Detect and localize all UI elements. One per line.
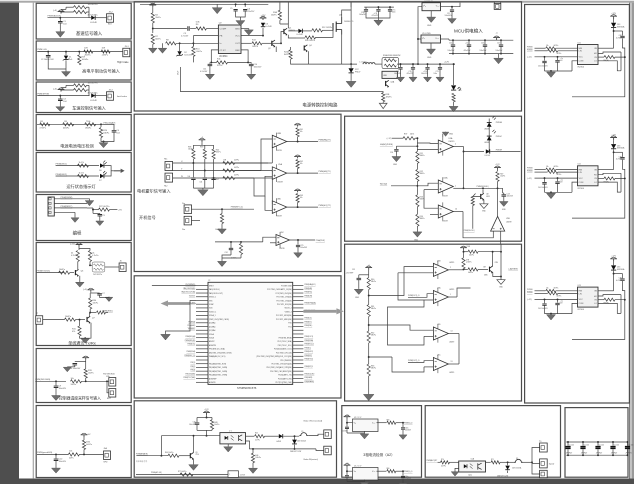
blockB1 comparator U5B	[438, 180, 453, 193]
svg-text:30k/Pa: 30k/Pa	[155, 38, 161, 40]
svg-text:GND: GND	[427, 57, 432, 59]
blockB1 output bus vertical	[463, 152, 465, 189]
svg-text:HIN: HIN	[579, 169, 583, 171]
power resistor R11	[217, 61, 228, 64]
mcu left pin 12	[196, 326, 208, 328]
svg-text:LM239: LM239	[449, 289, 454, 291]
power bank cap 2	[468, 40, 470, 44]
svg-text:+82kPa: +82kPa	[84, 54, 91, 56]
current rowA input wire	[347, 419, 353, 423]
brake connector brake-in	[316, 449, 324, 451]
svg-text:LL4148: LL4148	[90, 100, 98, 102]
blockB2 right emitter wire	[493, 272, 501, 276]
box7 circuit2 input wire	[43, 319, 65, 321]
box6 ground 1	[74, 212, 76, 217]
svg-text:10R: 10R	[102, 48, 106, 50]
box2 capacitor C2	[47, 52, 49, 55]
svg-text:4.7u/16V: 4.7u/16V	[200, 71, 208, 73]
box1 resistor right joins	[87, 6, 90, 8]
top edge band	[0, 0, 634, 1]
opto junction to connectors	[531, 461, 533, 463]
svg-text:PWM(SP): PWM(SP)	[304, 355, 312, 357]
svg-text:U21: U21	[578, 42, 581, 44]
power cap row ground	[366, 11, 390, 18]
blockB1 U5D input left	[453, 211, 463, 213]
svg-text:LM239: LM239	[449, 262, 454, 264]
svg-text:STM8S005C6T6: STM8S005C6T6	[237, 386, 257, 390]
svg-text:100n/50V: 100n/50V	[445, 15, 453, 17]
mcu left pin 18	[196, 348, 208, 350]
brake diode D9	[279, 434, 283, 438]
svg-text:U9C: U9C	[280, 232, 284, 234]
svg-text:(76)/Pa: (76)/Pa	[85, 128, 92, 130]
svg-text:10k/Pa: 10k/Pa	[71, 384, 77, 386]
svg-text:100n/50V: 100n/50V	[496, 50, 504, 52]
svg-text:10k 4k7/Pa: 10k 4k7/Pa	[88, 4, 99, 6]
svg-text:6.8k: 6.8k	[196, 22, 200, 24]
svg-text:56k/Pa: 56k/Pa	[271, 14, 277, 16]
box3 resistor upper	[74, 84, 87, 87]
box8 connector JB	[109, 389, 116, 398]
power sense resistor pair	[382, 57, 399, 68]
mcu vss ground	[166, 300, 197, 334]
box6 capacitor C5	[92, 210, 94, 214]
brake fuse F1	[299, 433, 308, 436]
svg-text:10k: 10k	[546, 287, 549, 289]
power rail drop to Q1	[287, 2, 289, 24]
power Q1 Q2 base tie	[270, 42, 272, 44]
current rowA gnd	[364, 431, 366, 434]
driver3 HO out wire	[620, 295, 622, 314]
capbank cap 2	[582, 442, 584, 446]
svg-text:车速控制信号输入: 车速控制信号输入	[72, 105, 106, 112]
svg-text:100n: 100n	[405, 476, 409, 478]
box3 resistor lower	[74, 88, 87, 91]
svg-text:GND: GND	[427, 25, 432, 27]
svg-text:10k/Pa: 10k/Pa	[216, 152, 221, 154]
power transistor Q4	[303, 45, 305, 50]
svg-text:PWGB: PWGB	[527, 46, 533, 48]
blockB2 right hollow ground	[500, 277, 502, 280]
power U4 output wire	[441, 3, 461, 7]
power cap C7C	[389, 7, 391, 9]
blockB2 right junction	[463, 250, 465, 252]
svg-text:R38: R38	[188, 147, 191, 149]
svg-text:14: 14	[455, 209, 457, 211]
svg-text:3相电流检测（A2）: 3相电流检测（A2）	[363, 452, 395, 457]
svg-text:68k/Pa: 68k/Pa	[420, 155, 425, 157]
svg-text:PWM(speed/GN): PWM(speed/GN)	[37, 452, 53, 454]
power emitter junction wires	[288, 35, 296, 38]
hall U8A output	[287, 141, 318, 143]
box4 resistor R23	[85, 123, 96, 126]
svg-text:C0 104: C0 104	[569, 444, 574, 446]
opto fuse F2	[514, 459, 523, 462]
blockB1 comparator U5D upward	[491, 216, 505, 231]
svg-text:C19: C19	[409, 71, 412, 73]
blockB1 SD/OK long wire	[472, 206, 474, 229]
svg-text:C13: C13	[507, 193, 510, 195]
svg-text:10k: 10k	[69, 451, 72, 453]
svg-text:PWM(NRST): PWM(NRST)	[61, 206, 73, 208]
box3 wires to resistors	[61, 90, 74, 92]
svg-text:100n: 100n	[392, 12, 396, 14]
capbank bottom rail	[566, 454, 628, 456]
svg-text:C40 100n/50V: C40 100n/50V	[538, 187, 548, 189]
svg-text:PWGB: PWGB	[527, 49, 533, 51]
svg-text:PG0: PG0	[288, 323, 291, 325]
svg-text:LIN: LIN	[579, 172, 583, 174]
svg-text:PG1: PG1	[288, 326, 291, 328]
svg-text:22: 22	[208, 280, 210, 282]
current rowB output wire	[377, 470, 387, 472]
svg-text:2: 2	[450, 267, 451, 269]
svg-text:C18: C18	[396, 71, 399, 73]
svg-text:+5V REF: +5V REF	[346, 272, 355, 274]
blockB2 right top wire	[478, 251, 501, 253]
svg-text:(+12): (+12)	[527, 57, 532, 59]
svg-text:R27 4k7/Pa: R27 4k7/Pa	[99, 206, 110, 208]
box7 rail split	[78, 247, 80, 249]
mcu right pin 2	[293, 288, 304, 290]
svg-text:开机信号: 开机信号	[139, 214, 156, 221]
svg-text:编程: 编程	[73, 230, 82, 237]
svg-text:100n/16V: 100n/16V	[189, 424, 195, 426]
svg-text:68k/Pa: 68k/Pa	[371, 281, 376, 283]
svg-text:PD7(TLI)(TIM1_CH4): PD7(TLI)(TIM1_CH4)	[276, 382, 293, 384]
current rowA output wire	[377, 422, 387, 424]
blockB1 U5D input right	[500, 231, 502, 244]
svg-text:LL4148: LL4148	[297, 34, 303, 36]
brake transistor Q9	[189, 453, 191, 458]
power-on resistor ground	[221, 224, 223, 229]
svg-text:PWM/NC: PWM/NC	[188, 329, 196, 331]
opto zener D12	[507, 462, 509, 465]
svg-text:U5A: U5A	[278, 163, 283, 166]
hall U8C pullup	[294, 191, 301, 193]
svg-text:COM: COM	[579, 182, 584, 184]
box3 resistor joins	[87, 84, 90, 86]
svg-text:4k7/Pa: 4k7/Pa	[255, 439, 260, 441]
box2 ground	[65, 70, 67, 73]
svg-text:HIN: HIN	[579, 291, 583, 293]
mcu top-left net wire	[152, 285, 196, 287]
blockB1 divider bottom ground	[416, 226, 418, 231]
box8 capacitor C8	[85, 360, 87, 362]
svg-text:1: 1	[450, 294, 451, 296]
blockB2 right collector wire	[492, 252, 494, 267]
blockB2 comparator U11D	[433, 358, 448, 371]
blockB2 input wires op1	[369, 267, 434, 296]
driver1 IC IR2304	[578, 45, 599, 65]
svg-text:PD6 TIM2_CH1 (BK6/P)(D6): PD6 TIM2_CH1 (BK6/P)(D6)	[270, 371, 292, 373]
blockB2 ref rail	[359, 274, 369, 276]
svg-text:R3C 10R/Pa: R3C 10R/Pa	[322, 27, 332, 29]
box7 output junction	[89, 262, 91, 266]
blockA lower comparator input wires	[263, 237, 276, 242]
blockB2 divider R60	[368, 275, 370, 278]
driver3 VB wire	[613, 271, 615, 291]
svg-text:PWM(V)_D: PWM(V)_D	[404, 423, 413, 425]
box4 resistor R24 vertical	[100, 124, 102, 127]
box8 capacitor C9	[55, 381, 57, 385]
left column box 9 frame	[36, 406, 131, 478]
blockB2 ref power	[365, 268, 372, 270]
mcu left pin 21	[196, 359, 208, 361]
svg-text:(+12): (+12)	[70, 243, 75, 245]
power Q3 source wire	[341, 35, 343, 65]
svg-text:R41: R41	[300, 129, 303, 131]
box3 capacitor	[59, 96, 61, 99]
power R24A resistor	[290, 47, 292, 50]
bottom shadow bar	[0, 479, 634, 485]
power IC U2 PWM controller	[218, 25, 241, 54]
brake resistor R48	[210, 420, 213, 430]
driver1 bootstrap cap C48	[614, 30, 623, 32]
svg-text:4k7/Pa: 4k7/Pa	[554, 166, 559, 168]
blockB2 right vertical out wire	[500, 244, 502, 276]
svg-text:47u/25V: 47u/25V	[248, 11, 255, 13]
brake Q9 collector	[193, 436, 195, 453]
box4 capacitor C4	[113, 124, 115, 130]
blockB2 feedback loop	[388, 300, 425, 345]
brake base resistor R44	[137, 455, 169, 457]
svg-text:50V: 50V	[560, 303, 563, 305]
mcu right pin 16	[293, 340, 304, 342]
power gate node wire	[322, 29, 333, 31]
blockB1 SD wire	[464, 187, 503, 189]
svg-text:C48: C48	[619, 278, 622, 280]
svg-text:PWM(UH): PWM(UH)	[304, 295, 312, 297]
driver3 HIN wire	[535, 290, 546, 292]
driver3 IC IR2304	[578, 287, 599, 307]
driver2 cap C40	[544, 178, 546, 182]
svg-text:10k/Pa: 10k/Pa	[88, 372, 94, 374]
svg-text:运行状态指示灯: 运行状态指示灯	[66, 183, 96, 190]
svg-text:4u7/50V: 4u7/50V	[616, 37, 622, 39]
power +12V above D3	[260, 18, 267, 20]
box7 circuit2 output resistor	[89, 312, 91, 314]
driver2 +12V symbol	[610, 138, 617, 141]
box9 +5V power	[81, 435, 88, 437]
svg-text:LM239: LM239	[449, 372, 454, 374]
svg-text:100n/16V: 100n/16V	[300, 247, 308, 249]
blockA lower output cap	[297, 240, 299, 245]
box8 connector link wire	[107, 380, 109, 382]
svg-text:10k/Pa: 10k/Pa	[65, 316, 72, 318]
svg-text:R39: R39	[200, 147, 203, 149]
mcu right pin 21	[293, 359, 304, 361]
blockB1 comparator U5A	[438, 140, 453, 153]
svg-text:47k: 47k	[72, 331, 75, 333]
mcu right pin 19	[293, 352, 304, 354]
svg-text:+ 1u: + 1u	[560, 179, 563, 181]
svg-text:C0 104: C0 104	[614, 444, 619, 446]
hall cap bottom rail	[192, 180, 194, 188]
svg-text:IR2304: IR2304	[578, 309, 585, 311]
blockB1 input cap	[395, 146, 397, 149]
power OUT wire and R13	[241, 42, 252, 44]
mcu right bus arrow	[303, 310, 336, 313]
mcu right pin 20	[293, 355, 304, 357]
svg-text:PWM(OC2)_D: PWM(OC2)_D	[408, 360, 420, 362]
box1 ground	[59, 23, 61, 31]
driver1 HO wire	[598, 52, 621, 53]
svg-text:PA1(OSCIN)(D): PA1(OSCIN)(D)	[183, 287, 195, 290]
svg-text:High brake: High brake	[117, 61, 129, 64]
svg-text:C40 100n/50V: C40 100n/50V	[538, 308, 548, 310]
driver3 LO wire	[598, 303, 621, 313]
mcu right pin 17	[293, 344, 304, 346]
svg-text:100n/50V: 100n/50V	[480, 50, 488, 52]
svg-text:COM: COM	[579, 303, 584, 305]
svg-text:CT:ST: CT:ST	[220, 50, 227, 52]
blockB1 LED PWGC	[487, 136, 492, 140]
power bank cap 3	[484, 40, 486, 44]
blockB1 comparator input wires	[417, 142, 438, 144]
power resistor R7	[152, 29, 154, 34]
svg-text:PE5(TIM1_BKIN): PE5(TIM1_BKIN)	[279, 337, 292, 339]
power cap bank rails	[449, 39, 513, 41]
box3 main wire	[37, 95, 89, 97]
svg-text:+Pb(Pb)V: +Pb(Pb)V	[581, 452, 588, 454]
svg-text:PWGB: PWGB	[527, 168, 533, 170]
svg-text:20N06L/TO: 20N06L/TO	[344, 21, 354, 23]
svg-text:LL4148: LL4148	[276, 441, 281, 443]
svg-text:LED0B: LED0B	[484, 129, 489, 131]
svg-text:PWM(SCL)2: PWM(SCL)2	[304, 344, 314, 346]
power feedback wire long	[180, 67, 380, 92]
svg-text:100n/50V: 100n/50V	[448, 50, 456, 52]
svg-text:PMA(A)N4 (DC_SCL): PMA(A)N4 (DC_SCL)	[209, 355, 226, 358]
svg-text:PWM(HA)(HY): PWM(HA)(HY)	[304, 283, 315, 286]
power transistor Q5A	[385, 81, 387, 86]
svg-text:LED0B: LED0B	[484, 142, 489, 144]
blockB2 ref cap ground	[358, 280, 360, 289]
svg-text:PCV(TIM1_CH2)(D6): PCV(TIM1_CH2)(D6)	[276, 293, 292, 295]
driver1 VB wire	[613, 28, 615, 48]
svg-text:C0 104: C0 104	[584, 444, 589, 446]
svg-text:PWM(HC2): PWM(HC2)	[304, 351, 313, 353]
svg-text:AGN/PB: AGN/PB	[209, 381, 216, 384]
hall wire U	[173, 162, 268, 164]
mcu left pin 24	[196, 370, 208, 372]
driver3 HO wire	[598, 295, 621, 296]
box7 circuit2 transistor Q7	[86, 317, 88, 322]
power GND pin wire	[241, 28, 249, 30]
svg-text:10k/Pa: 10k/Pa	[500, 176, 505, 178]
svg-text:R48: R48	[214, 422, 217, 424]
blockB1 +12 pullup	[494, 168, 501, 170]
power GND pin ground symbol	[248, 29, 250, 30]
current rowB regulator	[353, 468, 379, 481]
svg-text:PWM(V)_D: PWM(V)_D	[404, 471, 413, 473]
svg-text:LM239: LM239	[449, 141, 455, 143]
mcu right pin 11	[293, 322, 304, 324]
box2 resistor R18	[84, 50, 93, 53]
current rowA +15 power	[344, 417, 351, 419]
svg-text:Brake IN(variant): Brake IN(variant)	[304, 458, 319, 461]
svg-text:10k: 10k	[300, 197, 303, 199]
svg-text:R52: R52	[420, 171, 423, 173]
svg-text:104: 104	[216, 179, 219, 181]
svg-text:D13: D13	[617, 24, 620, 26]
svg-text:PF4 AIN3 (DC_SDA): PF4 AIN3 (DC_SDA)	[209, 348, 225, 351]
svg-text:PCV TIM1_CH4(D6): PCV TIM1_CH4(D6)	[276, 300, 292, 302]
svg-text:+12V: +12V	[611, 256, 616, 258]
hall comparator U8C	[272, 201, 287, 214]
svg-text:PWM(HC): PWM(HC)	[304, 292, 312, 294]
current rowB input cap	[346, 471, 348, 475]
mcu left pin 19	[196, 352, 208, 354]
box7 circuit2 +5 power	[87, 290, 94, 292]
power LED resistor	[452, 93, 455, 102]
box1 resistor R16 upper	[74, 6, 87, 9]
box2 resistor R19 vertical	[78, 52, 80, 55]
power bank cap 1	[452, 40, 454, 44]
capbank block frame	[565, 408, 628, 478]
blockB2 input wires op2	[408, 294, 433, 298]
box4 input wire	[37, 123, 101, 125]
svg-text:PCV SP1_MOSI(D6): PCV SP1_MOSI(D6)	[276, 315, 292, 317]
mcu right pin 1	[293, 285, 304, 287]
svg-text:750k: 750k	[86, 121, 90, 123]
svg-text:PCV SP1_SCK(D6): PCV SP1_SCK(D6)	[277, 304, 292, 306]
svg-text:C25: C25	[300, 245, 303, 247]
svg-text:C14: C14	[449, 42, 452, 44]
power top rail	[140, 3, 234, 5]
mcu left pin 11	[196, 322, 208, 324]
box6 +5V right	[110, 209, 118, 211]
blockB2 divider R63	[368, 343, 370, 364]
brake long wire	[161, 435, 220, 437]
svg-text:PD4/(UART1_RX): PD4/(UART1_RX)	[278, 377, 292, 380]
svg-text:VDDIO_2: VDDIO_2	[284, 308, 291, 310]
box7 circuit2 ground	[84, 337, 86, 339]
box8 connector JA	[109, 378, 116, 387]
driver2 cap C41	[557, 178, 559, 181]
svg-text:+15: +15	[346, 463, 349, 465]
svg-text:HO: HO	[594, 296, 597, 298]
svg-text:0835: 0835	[486, 196, 490, 198]
svg-text:(+12): (+12)	[527, 299, 532, 301]
current rowA input cap	[346, 423, 348, 427]
mcu right pin 14	[293, 333, 304, 335]
svg-text:1k 1%: 1k 1%	[79, 162, 85, 164]
svg-text:+ 1u: + 1u	[560, 301, 563, 303]
driver3 cap C41	[557, 299, 559, 302]
svg-text:LO: LO	[594, 61, 597, 63]
svg-text:C16: C16	[481, 42, 484, 44]
svg-text:(D5)PA4: (D5)PA4	[209, 322, 215, 325]
svg-text:(D5)PA4: (D5)PA4	[209, 325, 215, 328]
right shadow edge	[631, 3, 634, 479]
svg-text:Speed·: Speed·	[549, 463, 555, 465]
driver3 ground	[550, 314, 552, 315]
brake bottom resistor	[180, 473, 193, 476]
power resistor R3C	[303, 30, 312, 32]
hall pullup joins	[192, 159, 194, 163]
svg-text:R46: R46	[255, 455, 258, 457]
svg-text:HO: HO	[594, 175, 597, 177]
svg-text:13: 13	[451, 361, 453, 363]
svg-text:ADM/PM: ADM/PM	[209, 344, 216, 347]
brake Q9 emitter ground	[193, 459, 195, 464]
svg-text:R50A/R50B 0R068/2W: R50A/R50B 0R068/2W	[383, 54, 401, 57]
power low rail	[291, 51, 309, 64]
box5 resistor R26	[78, 174, 89, 177]
blockB1 output diode D11	[486, 149, 490, 153]
